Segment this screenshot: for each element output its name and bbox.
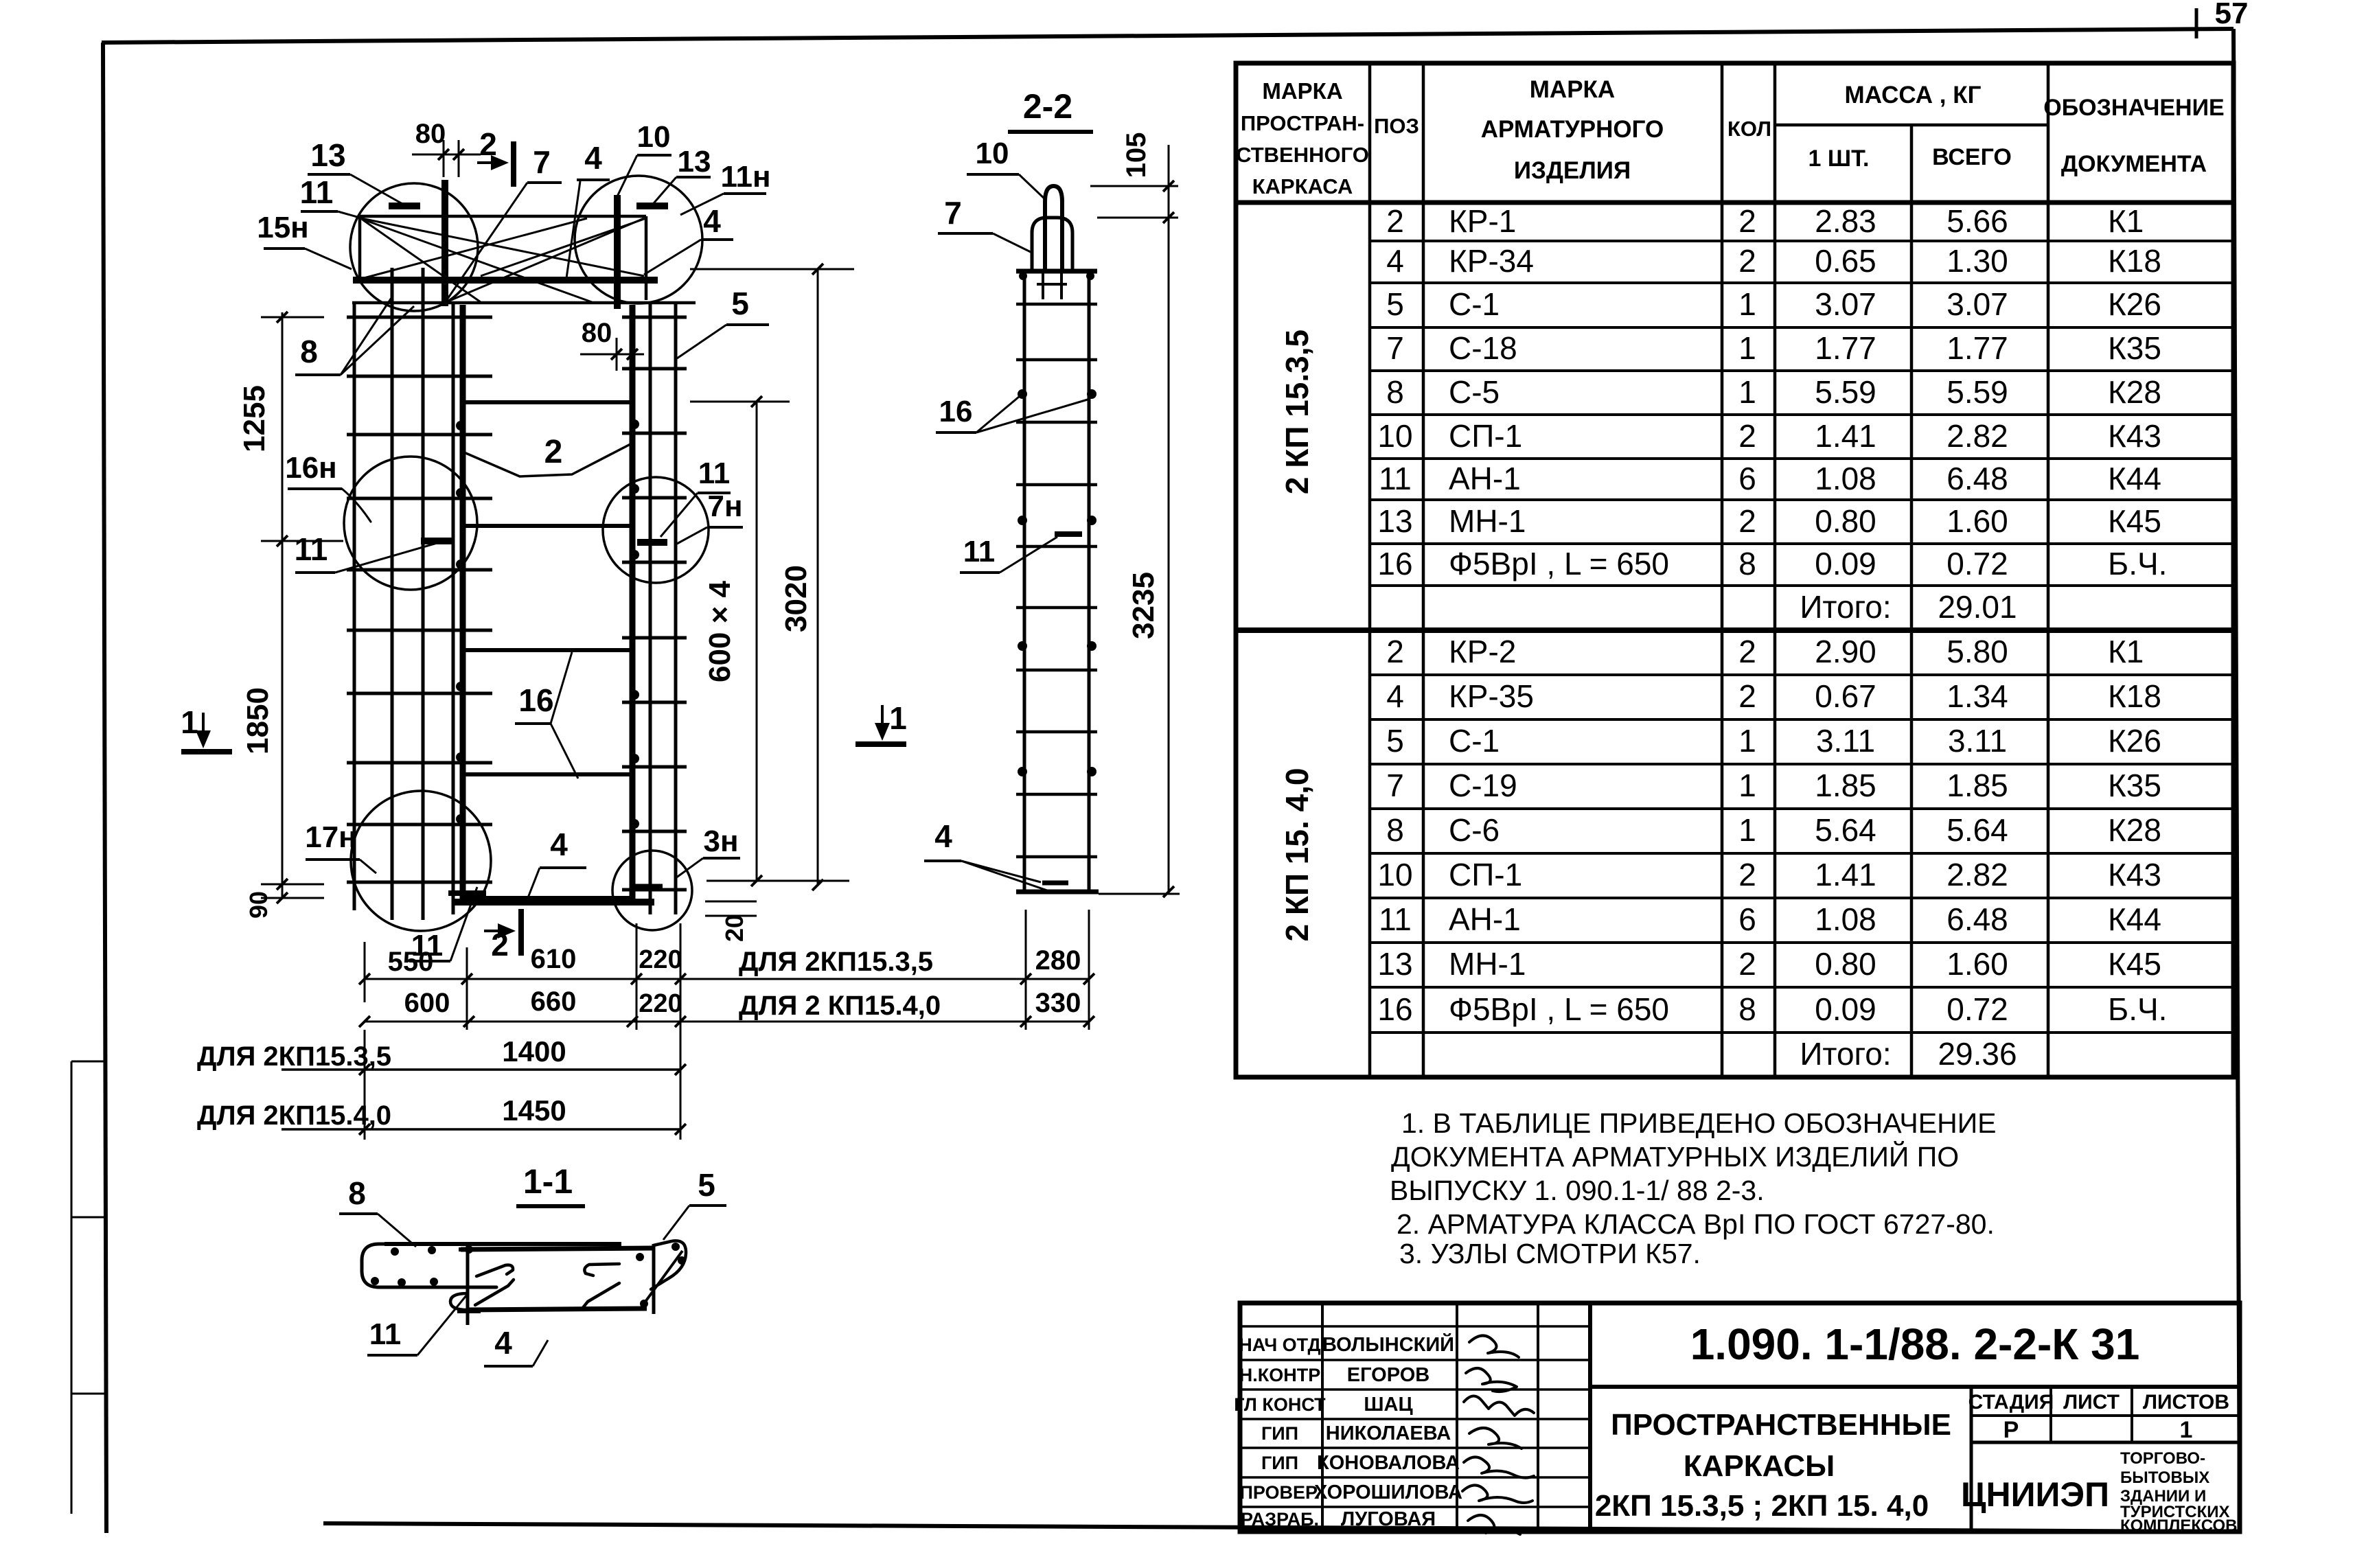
section 2-2 side dot 7 <box>1018 767 1027 776</box>
svg-text:660: 660 <box>531 987 577 1017</box>
svg-text:АРМАТУРНОГО: АРМАТУРНОГО <box>1481 116 1664 143</box>
right mesh rung 6 <box>622 636 687 640</box>
1-1 right dot 1 <box>671 1243 680 1251</box>
svg-text:С-5: С-5 <box>1449 374 1500 410</box>
svg-text:КР-35: КР-35 <box>1449 678 1534 714</box>
anchor dash bottom-right <box>635 884 663 890</box>
svg-text:5.80: 5.80 <box>1947 634 2008 669</box>
table column line 5 <box>1910 125 1914 1077</box>
left dim ticks <box>277 312 288 323</box>
sheet frame right border <box>2234 29 2240 1532</box>
svg-text:16: 16 <box>1377 546 1412 581</box>
svg-text:5: 5 <box>1386 286 1404 322</box>
weld dot 3 <box>456 560 466 569</box>
right mesh rung 8 <box>622 765 687 769</box>
svg-text:5.64: 5.64 <box>1815 812 1876 848</box>
section 2-2 side dot 3 <box>1018 516 1027 525</box>
dim 105-3235 vertical line <box>1168 145 1170 894</box>
svg-text:ДОКУМЕНТА: ДОКУМЕНТА <box>2061 151 2207 177</box>
left mesh rung 7 <box>347 692 492 695</box>
ladder tie wire pos 16 #2 <box>463 524 632 528</box>
svg-text:ДОКУМЕНТА АРМАТУРНЫХ ИЗДЕЛ: ДОКУМЕНТА АРМАТУРНЫХ ИЗДЕЛИЙ ПО <box>1391 1141 1959 1173</box>
section 2-2 anchor dash 4 <box>1042 881 1068 886</box>
1-1 mesh dot 2 <box>428 1246 436 1254</box>
svg-text:СП-1: СП-1 <box>1449 857 1522 892</box>
svg-text:ВЫПУСКУ 1. 090.1-1/ 88 2-3.: ВЫПУСКУ 1. 090.1-1/ 88 2-3. <box>1390 1175 1765 1206</box>
svg-text:2: 2 <box>544 434 563 470</box>
lifting loop SP-1 pos 10 <box>1045 186 1062 270</box>
svg-text:КОМПЛЕКСОВ: КОМПЛЕКСОВ <box>2120 1517 2237 1535</box>
title block signature 7 <box>1468 1515 1520 1534</box>
svg-text:280: 280 <box>1035 945 1081 976</box>
svg-text:10: 10 <box>976 137 1009 170</box>
svg-text:Р: Р <box>2003 1417 2019 1443</box>
svg-text:5: 5 <box>698 1167 715 1203</box>
svg-text:1.08: 1.08 <box>1815 901 1876 937</box>
svg-text:АН-1: АН-1 <box>1449 901 1521 937</box>
anchor plate MN-1 top-left dash <box>389 203 420 209</box>
svg-text:ДЛЯ 2 КП15.4,0: ДЛЯ 2 КП15.4,0 <box>739 991 941 1021</box>
svg-text:Б.Ч.: Б.Ч. <box>2108 546 2167 581</box>
svg-text:КАРКАСЫ: КАРКАСЫ <box>1684 1449 1835 1483</box>
section 2-2 rung 4 <box>1016 483 1097 487</box>
svg-text:0.80: 0.80 <box>1815 946 1876 982</box>
section 2-2 anchor dash 11 <box>1055 531 1082 537</box>
left mesh C-5 bar v4 <box>452 303 455 914</box>
svg-text:1: 1 <box>181 704 198 740</box>
svg-text:Ф5ВрI , L = 650: Ф5ВрI , L = 650 <box>1449 546 1669 581</box>
svg-text:1850: 1850 <box>241 687 275 754</box>
svg-text:6.48: 6.48 <box>1947 461 2008 496</box>
svg-text:5.59: 5.59 <box>1947 374 2008 410</box>
1-1 right dot 4 <box>640 1300 648 1308</box>
svg-text:2 КП 15.3,5: 2 КП 15.3,5 <box>1279 330 1315 494</box>
title block signature 5 <box>1464 1457 1534 1477</box>
bottom dim row C ticks <box>359 1064 370 1075</box>
svg-text:С-1: С-1 <box>1449 723 1500 759</box>
svg-text:ДЛЯ 2КП15.3,5: ДЛЯ 2КП15.3,5 <box>739 947 933 977</box>
section 2-2 side dot 2 <box>1087 389 1096 399</box>
section mark 1 right arrow <box>881 705 884 735</box>
section 2-2 rung 9 <box>1016 793 1097 796</box>
title block signature 3 <box>1464 1396 1534 1416</box>
left mesh rung 10 <box>347 881 492 884</box>
1-1 KP cross bar left <box>466 1245 470 1325</box>
section 2-2 side dot 4 <box>1087 516 1096 525</box>
left dim extension y1288 <box>261 884 324 886</box>
detail circle bottom-left 17n <box>351 791 491 931</box>
svg-text:2: 2 <box>1738 418 1756 454</box>
table row line 12 <box>1370 718 2234 721</box>
left mesh rung 2 <box>347 375 492 378</box>
title block name row line 2 <box>1240 1359 1590 1361</box>
svg-text:ЦНИИЭП: ЦНИИЭП <box>1961 1475 2109 1514</box>
section 2-2 rung 5 <box>1016 545 1097 549</box>
svg-text:13: 13 <box>310 137 345 173</box>
title block vertical signatures/dates <box>1537 1303 1539 1532</box>
1-1 hook 4 <box>582 1283 619 1308</box>
svg-text:К1: К1 <box>2108 203 2144 239</box>
right mesh rung 3 <box>622 432 687 435</box>
svg-text:1.77: 1.77 <box>1815 330 1876 366</box>
1-1 mesh dot 5 <box>398 1278 406 1287</box>
ladder tie wire pos 16 #1 <box>463 400 632 404</box>
anchor dash AN-1 mid-left <box>421 538 453 544</box>
1-1 mesh dot 4 <box>371 1277 379 1285</box>
anchor plate MN-1 top-right dash <box>636 203 668 209</box>
table massa subheader line <box>1775 124 2048 127</box>
1-1 hook 2 <box>475 1280 514 1305</box>
anchor dash AN-1 mid-right <box>637 539 667 546</box>
table row line 8 <box>1370 542 2234 545</box>
svg-text:5.66: 5.66 <box>1947 203 2008 239</box>
right mesh rung 5 <box>622 561 687 564</box>
title block name row line 5 <box>1240 1446 1590 1449</box>
dim 80 right line <box>580 354 644 356</box>
2-2 bottom dim extension verticals <box>1025 910 1027 1030</box>
svg-text:220: 220 <box>639 989 682 1018</box>
table column line 4 <box>1773 63 1777 1077</box>
svg-text:550: 550 <box>388 947 434 977</box>
svg-text:2.90: 2.90 <box>1815 634 1876 669</box>
svg-text:1.85: 1.85 <box>1947 768 2008 803</box>
svg-text:2: 2 <box>1738 857 1756 892</box>
svg-text:СТВЕННОГО: СТВЕННОГО <box>1236 143 1369 167</box>
svg-text:4: 4 <box>1386 678 1404 714</box>
svg-text:1 ШТ.: 1 ШТ. <box>1808 146 1870 172</box>
left mesh rung 1 <box>347 316 492 319</box>
svg-text:2-2: 2-2 <box>1023 87 1072 126</box>
svg-text:К43: К43 <box>2108 418 2161 454</box>
svg-text:1-1: 1-1 <box>523 1162 573 1201</box>
svg-text:1.41: 1.41 <box>1815 418 1876 454</box>
cap MN-1 pos 13 <box>1032 218 1072 270</box>
section 2-2 rung 2 <box>1016 358 1097 362</box>
svg-text:2: 2 <box>1738 203 1756 239</box>
dim 20 extensions bottom right <box>705 901 757 903</box>
svg-text:8: 8 <box>1738 546 1756 581</box>
stud bar pos 10 right (SP-1) <box>614 195 621 309</box>
svg-text:1.60: 1.60 <box>1947 946 2008 982</box>
svg-text:1: 1 <box>1738 812 1756 848</box>
svg-text:105: 105 <box>1121 132 1151 178</box>
svg-text:К28: К28 <box>2108 374 2161 410</box>
svg-text:С-19: С-19 <box>1449 768 1517 803</box>
right mesh rung 2 <box>622 367 687 371</box>
svg-text:Б.Ч.: Б.Ч. <box>2108 991 2167 1027</box>
right dim bottom extension y1283 <box>707 880 849 882</box>
svg-text:2: 2 <box>1386 634 1404 669</box>
svg-text:К44: К44 <box>2108 901 2161 937</box>
top crossing diagonal 4 <box>363 220 481 302</box>
section 2-2 top corner dots <box>1019 272 1027 280</box>
1-1 KP left bottom hook <box>450 1293 481 1310</box>
right mesh rung 7 <box>622 701 687 704</box>
svg-text:0.80: 0.80 <box>1815 503 1876 539</box>
table row line 7 <box>1370 498 2234 501</box>
1-1 mesh dot 1 <box>391 1247 399 1256</box>
table row line 18 <box>1370 986 2234 989</box>
section 2-2 side dot 6 <box>1087 641 1096 651</box>
section 2-2 rung 10 <box>1016 855 1097 859</box>
detail circle top-left <box>350 183 478 311</box>
page number 57 tick <box>2195 8 2198 38</box>
table column line 6 <box>2047 63 2050 1077</box>
weld dot 1 <box>456 421 466 430</box>
svg-text:600 × 4: 600 × 4 <box>703 580 737 682</box>
section 1-1 title underline <box>516 1204 585 1208</box>
table row line 16 <box>1370 897 2234 899</box>
svg-text:6: 6 <box>1738 901 1756 937</box>
title block signature 2 <box>1466 1368 1517 1392</box>
section 2-2 anchor crossbar <box>1037 283 1067 286</box>
bottom dim row C line <box>282 1068 680 1071</box>
svg-text:7: 7 <box>1386 768 1404 803</box>
left dim extension y413 <box>261 316 324 319</box>
bottom dim row B line <box>365 1021 1089 1023</box>
title block name row line 4 <box>1240 1418 1590 1420</box>
svg-text:3.11: 3.11 <box>1816 723 1875 759</box>
svg-text:ХОРОШИЛОВА: ХОРОШИЛОВА <box>1314 1481 1462 1503</box>
section 2-2 side dot 5 <box>1018 641 1027 651</box>
svg-text:0.09: 0.09 <box>1815 546 1876 581</box>
svg-text:610: 610 <box>531 944 577 974</box>
table row line 14 <box>1370 807 2234 810</box>
table column line 2 <box>1422 63 1425 1077</box>
1-1 left mesh band top edge thick <box>384 1242 621 1246</box>
svg-text:КР-2: КР-2 <box>1449 634 1516 669</box>
svg-text:16: 16 <box>1377 991 1412 1027</box>
title block signature 6 <box>1462 1485 1532 1503</box>
svg-text:С-6: С-6 <box>1449 812 1500 848</box>
ladder tie wire pos 16 #5 <box>463 896 632 900</box>
weld dot 5 <box>456 752 466 762</box>
sheet frame bottom border <box>323 1523 2240 1532</box>
svg-text:ГИП: ГИП <box>1261 1423 1298 1444</box>
svg-text:К1: К1 <box>2108 634 2144 669</box>
svg-text:3. УЗЛЫ СМОТРИ К57.: 3. УЗЛЫ СМОТРИ К57. <box>1399 1238 1701 1269</box>
svg-text:1255: 1255 <box>238 385 271 452</box>
svg-text:2: 2 <box>1738 634 1756 669</box>
svg-text:1.34: 1.34 <box>1947 678 2008 714</box>
bottom dim row D ticks <box>359 1124 370 1135</box>
svg-text:1: 1 <box>1738 330 1756 366</box>
weld dot 12 <box>630 819 639 829</box>
1-1 KP band top edge <box>461 1248 654 1249</box>
svg-text:МАРКА: МАРКА <box>1530 76 1615 103</box>
bottom dim row A ticks <box>359 973 370 984</box>
left mesh rung 3 <box>347 433 492 437</box>
weld dot 10 <box>630 690 639 700</box>
svg-text:80: 80 <box>582 318 612 348</box>
table column line 1 <box>1368 63 1372 1077</box>
1-1 right diagonal <box>643 1251 682 1304</box>
svg-text:2.82: 2.82 <box>1947 418 2008 454</box>
left dim vertical line <box>282 312 284 898</box>
left mesh C-5 bar v2 <box>391 268 394 920</box>
bottom dim extension verticals row AB <box>364 942 366 1002</box>
svg-text:1: 1 <box>1738 286 1756 322</box>
svg-text:К28: К28 <box>2108 812 2161 848</box>
svg-text:5.59: 5.59 <box>1815 374 1876 410</box>
svg-text:КАРКАСА: КАРКАСА <box>1252 174 1353 198</box>
title block stadiya column line 2 <box>2131 1387 2133 1442</box>
svg-text:ОБОЗНАЧЕНИЕ: ОБОЗНАЧЕНИЕ <box>2043 95 2224 121</box>
svg-text:0.09: 0.09 <box>1815 991 1876 1027</box>
svg-text:16: 16 <box>518 682 553 718</box>
left mesh rung 4 <box>347 497 492 500</box>
svg-text:ИЗДЕЛИЯ: ИЗДЕЛИЯ <box>1514 157 1631 184</box>
top crossing diagonal 1 <box>361 218 644 276</box>
svg-text:0.65: 0.65 <box>1815 243 1876 279</box>
svg-text:Итого:: Итого: <box>1800 589 1891 625</box>
plan top rect right edge <box>645 216 648 300</box>
1-1 mesh dot 3 <box>465 1245 473 1254</box>
svg-text:2: 2 <box>1738 678 1756 714</box>
dim bottom extension 2-2 <box>1099 893 1180 895</box>
weld dot 6 <box>456 814 466 824</box>
title block name row line 6 <box>1240 1476 1590 1479</box>
svg-text:7: 7 <box>1386 330 1404 366</box>
svg-text:МАРКА: МАРКА <box>1262 78 1342 104</box>
table outer border <box>1236 63 2234 1077</box>
svg-text:2. АРМАТУРА КЛАССА ВрI ПО: 2. АРМАТУРА КЛАССА ВрI ПО ГОСТ 6727-80. <box>1397 1208 1995 1240</box>
label 2 ladder bracket <box>464 443 632 476</box>
svg-text:ЛИСТОВ: ЛИСТОВ <box>2143 1391 2229 1414</box>
title block vertical stadiya-left <box>1970 1387 1973 1532</box>
svg-text:МН-1: МН-1 <box>1449 503 1526 539</box>
svg-text:1.77: 1.77 <box>1947 330 2008 366</box>
table column line 3 <box>1721 63 1724 1077</box>
svg-text:2.83: 2.83 <box>1815 203 1876 239</box>
svg-text:5: 5 <box>1386 723 1404 759</box>
svg-text:11: 11 <box>369 1317 402 1351</box>
section 2-2 title underline <box>1008 130 1093 134</box>
svg-text:3.07: 3.07 <box>1815 286 1876 322</box>
table row line 2 <box>1370 281 2234 284</box>
1-1 left mesh band outline <box>362 1244 496 1287</box>
section 2-2 column right side <box>1088 271 1091 892</box>
svg-text:11: 11 <box>1379 901 1412 937</box>
weld dot 4 <box>456 682 466 691</box>
title block vertical main divider <box>1588 1303 1592 1532</box>
svg-text:80: 80 <box>415 119 446 149</box>
table row line 1 <box>1370 240 2234 242</box>
table row line 15 <box>1370 852 2234 855</box>
title block name row line 3 <box>1240 1388 1590 1391</box>
svg-text:АН-1: АН-1 <box>1449 461 1521 496</box>
title block signature 1 <box>1469 1335 1519 1357</box>
svg-text:0.67: 0.67 <box>1815 678 1876 714</box>
1-1 bottom tick left <box>457 1309 481 1313</box>
svg-text:1.85: 1.85 <box>1815 768 1876 803</box>
ladder KP-1 right chord (pos 2) <box>630 305 636 901</box>
weld dot 9 <box>630 550 639 560</box>
svg-text:3н: 3н <box>703 825 738 858</box>
svg-text:17н: 17н <box>305 820 357 854</box>
title block doc number bottom line <box>1590 1385 2240 1389</box>
detail circle mid-left 16n <box>344 457 477 590</box>
svg-text:КОЛ: КОЛ <box>1727 117 1771 141</box>
sheet frame top border <box>102 29 2234 43</box>
ladder tie wire pos 16 #4 <box>463 772 632 776</box>
svg-text:57: 57 <box>2215 0 2249 30</box>
svg-text:3.11: 3.11 <box>1948 723 2007 759</box>
svg-text:ПРОСТРАН-: ПРОСТРАН- <box>1241 111 1364 135</box>
section 2-2 column left side <box>1023 271 1026 892</box>
weld dot 7 <box>630 419 639 429</box>
svg-text:29.36: 29.36 <box>1938 1036 2017 1072</box>
svg-text:ПРОСТРАНСТВЕННЫЕ: ПРОСТРАНСТВЕННЫЕ <box>1611 1408 1951 1442</box>
svg-text:6: 6 <box>1738 461 1756 496</box>
svg-text:7н: 7н <box>707 489 742 523</box>
svg-text:220: 220 <box>639 945 682 974</box>
svg-text:ЕГОРОВ: ЕГОРОВ <box>1347 1364 1429 1386</box>
bottom dim row B ticks <box>359 1016 370 1027</box>
svg-text:13: 13 <box>1377 946 1412 982</box>
section mark 1 right bar <box>856 741 906 747</box>
svg-text:К35: К35 <box>2108 768 2161 803</box>
svg-text:К26: К26 <box>2108 286 2161 322</box>
svg-text:1450: 1450 <box>502 1094 566 1127</box>
table row line 11 <box>1370 673 2234 676</box>
svg-text:11: 11 <box>300 174 334 210</box>
section mark 2 top arrow <box>477 161 503 164</box>
weld dot 2 <box>456 488 466 498</box>
left mesh rung 8 <box>347 761 492 765</box>
section mark 1 left bar <box>181 749 232 754</box>
right mesh C-1 bar v2 <box>649 303 652 914</box>
1-1 KP band bottom edge <box>467 1308 647 1310</box>
title block name row line 7 <box>1240 1506 1590 1508</box>
svg-text:К45: К45 <box>2108 946 2161 982</box>
plan top rect top edge (KP-34 bar pos 4) <box>360 215 646 218</box>
1-1 right dot 2 <box>678 1256 686 1265</box>
table header bottom line <box>1236 200 2234 205</box>
svg-text:КОНОВАЛОВА: КОНОВАЛОВА <box>1317 1452 1460 1474</box>
section 2-2 rung 1 <box>1016 303 1097 306</box>
svg-text:ЛИСТ: ЛИСТ <box>2063 1391 2120 1414</box>
svg-text:8: 8 <box>1386 374 1404 410</box>
left mesh C-5 bar v1 <box>353 303 356 910</box>
left dim extension y783 <box>261 540 343 542</box>
svg-text:15н: 15н <box>257 211 309 244</box>
svg-text:2: 2 <box>1386 203 1404 239</box>
svg-text:2: 2 <box>1738 503 1756 539</box>
svg-text:16н: 16н <box>285 451 337 485</box>
dim 80 top line <box>412 154 481 156</box>
svg-text:5: 5 <box>731 286 749 321</box>
1-1 top tick left <box>459 1247 479 1252</box>
svg-text:11н: 11н <box>720 160 770 194</box>
svg-text:7: 7 <box>533 144 551 180</box>
svg-text:2КП 15.3,5 ; 2КП 15. 4,0: 2КП 15.3,5 ; 2КП 15. 4,0 <box>1595 1489 1929 1523</box>
dim ticks 2-2 <box>1163 181 1174 192</box>
svg-text:К35: К35 <box>2108 330 2161 366</box>
right mesh C-1 bar v3 <box>674 303 678 914</box>
svg-text:1.08: 1.08 <box>1815 461 1876 496</box>
1-1 hook 1 <box>476 1265 513 1276</box>
left mesh rung 6 <box>347 629 492 632</box>
1-1 right wrap blob <box>651 1241 686 1289</box>
right dim top extension y392 <box>690 268 854 270</box>
ladder tie wire pos 16 #3 <box>463 648 632 652</box>
svg-text:4: 4 <box>1386 243 1404 279</box>
right mesh rung 4 <box>622 496 687 500</box>
section mark 2 bottom bar <box>518 909 524 956</box>
svg-text:Итого:: Итого: <box>1800 1036 1891 1072</box>
right dim ticks <box>751 396 762 407</box>
